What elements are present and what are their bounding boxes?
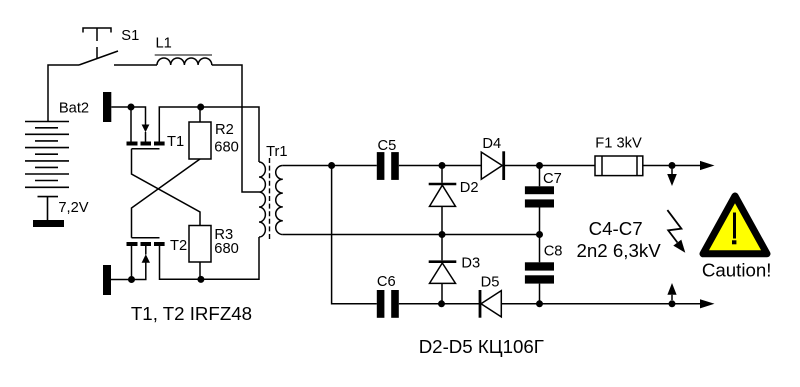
wire secondary top to C5	[283, 165, 377, 167]
transformer Tr1 core	[269, 158, 271, 241]
wire T2 source	[131, 246, 133, 280]
capacitor C7	[539, 166, 541, 187]
switch S1 push button actuator	[83, 28, 111, 58]
arrow output top right	[700, 161, 715, 170]
node D2 D3 junction	[439, 231, 446, 238]
transformer Tr1 primary winding	[259, 162, 265, 237]
wire T1 source	[130, 107, 132, 142]
svg-text:D3: D3	[461, 256, 480, 272]
transistor T1 body arrow	[142, 125, 150, 133]
resistor R2	[189, 122, 211, 159]
ground bar T1	[103, 92, 111, 122]
inductor L1 core	[155, 54, 212, 56]
node output top junction	[669, 162, 676, 169]
node T1 source junction	[128, 104, 135, 111]
capacitor C6	[377, 290, 399, 318]
svg-text:680: 680	[214, 241, 239, 257]
svg-text:Caution!: Caution!	[702, 260, 772, 281]
wire T2 drain to transformer primary bottom	[160, 237, 260, 279]
caution sign exclamation mark	[733, 213, 736, 239]
transistor T1 channel dashes	[127, 142, 165, 146]
wire L1 to transformer center tap	[212, 65, 259, 192]
svg-text:C8: C8	[544, 244, 563, 260]
svg-text:C7: C7	[543, 171, 562, 187]
node output bottom junction	[669, 300, 676, 307]
lightning bolt	[667, 210, 681, 242]
svg-text:D4: D4	[482, 136, 501, 152]
wire T1 drain to transformer primary top	[159, 107, 259, 162]
svg-text:680: 680	[214, 140, 239, 156]
svg-text:L1: L1	[156, 36, 172, 52]
svg-text:F1 3kV: F1 3kV	[595, 135, 642, 151]
arrow output bottom up	[671, 295, 673, 300]
svg-text:7,2V: 7,2V	[58, 200, 88, 216]
wire arrow to channel T2	[145, 246, 147, 255]
node C7 C8 junction	[536, 231, 543, 238]
svg-text:D2: D2	[460, 180, 479, 196]
transistor T2 body arrow	[142, 254, 150, 263]
wire R2 bottom to T2 gate (cross coupling)	[132, 159, 201, 238]
wire D4 to fuse	[505, 165, 595, 167]
wire top junction down to bottom rail	[332, 166, 377, 304]
svg-text:T1: T1	[167, 134, 184, 150]
node T2 source junction	[128, 276, 135, 283]
diode D5	[479, 290, 482, 318]
transistor T2 channel dashes	[127, 242, 165, 246]
capacitor C5	[377, 152, 399, 180]
transistor T2 source wire	[111, 262, 146, 280]
transistor T1 source wire	[111, 107, 145, 125]
svg-text:T1, T2 IRFZ48: T1, T2 IRFZ48	[131, 303, 252, 324]
svg-text:2n2 6,3kV: 2n2 6,3kV	[577, 240, 662, 261]
node D2 top junction	[439, 162, 446, 169]
wire D5 to output bottom	[501, 303, 700, 305]
wire middle rail secondary bottom to C8	[283, 234, 540, 236]
capacitor C8	[539, 235, 541, 263]
wire R3 bottom	[199, 262, 201, 279]
transistor T2 gate electrode	[132, 237, 160, 239]
wire battery plus to switch	[48, 65, 79, 122]
ground bar battery	[33, 220, 64, 227]
wire switch to L1	[114, 64, 157, 66]
node C8 bottom junction	[536, 300, 543, 307]
node C7 top junction	[536, 162, 543, 169]
node R2 top junction	[197, 104, 204, 111]
wire arrow to channel	[145, 132, 147, 142]
arrow output bottom right	[700, 299, 715, 308]
diode D4	[481, 152, 502, 179]
svg-text:C5: C5	[378, 138, 397, 154]
wire T1 gate to R3 top (cross coupling)	[132, 149, 201, 226]
svg-text:D5: D5	[481, 274, 500, 290]
caution sign triangle	[703, 196, 767, 254]
svg-text:C6: C6	[377, 274, 396, 290]
inductor L1 winding	[157, 58, 212, 65]
svg-text:D2-D5 КЦ106Г: D2-D5 КЦ106Г	[419, 336, 544, 357]
node top rail junction	[328, 162, 335, 169]
switch S1 lever	[79, 51, 118, 65]
resistor R3	[189, 226, 211, 263]
fuse F1	[595, 156, 643, 176]
svg-text:Bat2: Bat2	[59, 100, 89, 116]
svg-text:S1: S1	[121, 28, 139, 44]
svg-text:R2: R2	[215, 122, 234, 138]
transistor T1 gate electrode	[132, 148, 160, 150]
diode D2	[441, 166, 443, 183]
node D3 bottom junction	[438, 300, 445, 307]
wire C6 to D5	[399, 303, 480, 305]
svg-text:T2: T2	[170, 238, 187, 254]
node R3 bottom junction	[197, 276, 204, 283]
ground bar T2	[103, 265, 111, 295]
wire R2 top	[199, 107, 201, 122]
arrow output top down	[671, 169, 673, 174]
battery Bat2	[25, 122, 69, 221]
wire C5 to D4	[399, 165, 482, 167]
wire fuse to output	[643, 165, 700, 167]
svg-text:C4-C7: C4-C7	[589, 218, 643, 239]
transformer Tr1 secondary winding	[276, 166, 283, 235]
diode D3	[441, 235, 443, 261]
svg-text:Tr1: Tr1	[266, 144, 288, 160]
